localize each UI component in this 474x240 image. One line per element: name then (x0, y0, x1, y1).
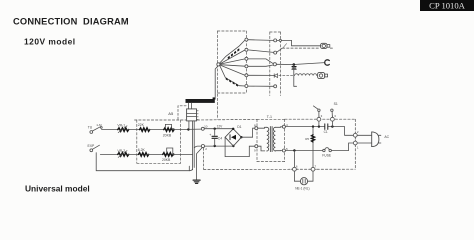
junction dot R5 top (312, 125, 314, 127)
T-1 terminal 8 (255, 127, 258, 130)
junction dot C4 top (214, 128, 216, 130)
terminal 2 (201, 145, 204, 148)
potentiometer 20KB (lower) (163, 153, 173, 156)
svg-text:C1: C1 (324, 130, 328, 134)
merged wire rows3-4 to spade lug (276, 63, 324, 65)
junction dot switch stub left (318, 125, 320, 127)
feed-through terminal 6 (291, 167, 298, 171)
selector terminal 4 (245, 65, 248, 68)
junction dot switch stub right (331, 125, 333, 127)
svg-text:CONNECTION DIAGRAM: CONNECTION DIAGRAM (13, 17, 129, 27)
capacitor C1 (324, 124, 326, 129)
selector terminal 5 (245, 74, 248, 77)
selector terminal 1 (245, 38, 248, 41)
diode arrow inside bridge (231, 135, 236, 140)
core (269, 127, 271, 152)
bridge rectifier D1 (225, 129, 241, 146)
junction dot bridge top (232, 128, 234, 130)
svg-text:C4: C4 (218, 137, 222, 141)
branch to neon terminal 6 (293, 151, 295, 168)
wire row B (EXP channel) (100, 153, 117, 155)
shielded pair down (192, 121, 194, 170)
input jack EXP (90, 145, 100, 152)
potentiometer 20KB (upper) (164, 128, 174, 131)
wire row1 to connector A (277, 40, 321, 45)
wire bridge left to T-1 terminal 9 (225, 137, 255, 156)
T-1 terminal 9 (255, 145, 258, 148)
svg-text:CP 1010A: CP 1010A (429, 1, 466, 11)
ground drop from terminal 2 (197, 147, 203, 180)
bead chain on row1 wire (228, 48, 240, 59)
dashed drop from terminal 2 (203, 148, 205, 169)
chassis dashed right side (354, 119, 356, 169)
splice bead marking (292, 67, 296, 70)
svg-text:1-M: 1-M (96, 123, 102, 127)
wire terminal 2 to rectifier (205, 145, 234, 147)
AC hot rail (285, 126, 324, 128)
bead chain on row6 wire (226, 78, 238, 87)
wire 0V rail to terminal 2 (194, 146, 201, 148)
drop wire from junction to row6 (294, 65, 297, 87)
wire row5 between columns (248, 74, 274, 76)
stub to feed-through 3 (318, 121, 320, 126)
primary winding (258, 127, 265, 130)
junction dot (172, 128, 174, 130)
selector common node (217, 63, 220, 66)
junction dot bridge bottom (232, 145, 234, 147)
wire from selector common down to tag strip bar (215, 66, 218, 99)
plug B (318, 72, 328, 78)
T-1 terminal 5 (282, 149, 285, 152)
fan wire to terminal row3 (220, 59, 245, 64)
wire row6 between columns (248, 85, 274, 87)
svg-text:12V: 12V (217, 125, 224, 129)
wire (127, 129, 139, 131)
svg-text:20KB: 20KB (163, 134, 172, 138)
stub to feed-through 3' (331, 121, 333, 126)
connector A (321, 43, 330, 48)
strip terminal row1 (274, 39, 277, 42)
fan wire to terminal row1 (220, 40, 245, 63)
svg-text:A5: A5 (168, 111, 174, 116)
crossing tick (283, 44, 286, 48)
AC neutral rail (285, 150, 322, 152)
lead row2 dashed to connector A (277, 48, 283, 52)
selector terminal 2 (245, 48, 248, 51)
svg-text:120V model: 120V model (24, 37, 76, 47)
wires to AC plug (357, 134, 372, 136)
svg-text:Universal model: Universal model (25, 184, 90, 193)
svg-text:R5: R5 (305, 137, 309, 141)
fuse (323, 148, 332, 152)
spade lug C (325, 60, 330, 65)
feed-through terminal 1' (353, 140, 357, 147)
coiled cord to plug B (295, 74, 317, 76)
junction dot bridge right (240, 136, 242, 138)
wire row4 merging (248, 65, 273, 66)
chassis dashed bottom (204, 168, 356, 170)
wire bridge right to T-1 terminal 8 (241, 128, 254, 137)
T-1 terminal 4 (282, 125, 285, 128)
fan wire to terminal row5 (220, 65, 245, 75)
svg-text:D1: D1 (237, 125, 241, 129)
svg-text:S1: S1 (334, 102, 338, 106)
bleeder resistor R5 (312, 127, 314, 135)
wire row1 between columns (248, 39, 274, 42)
inline splice on row1 wire (279, 39, 281, 41)
wire row2 between columns (248, 50, 274, 53)
svg-text:FUSE: FUSE (322, 153, 332, 157)
svg-text:NE-1 (NL): NE-1 (NL) (295, 187, 309, 191)
strip terminal row3-4 junction (273, 63, 276, 66)
junction dot at amp lead (187, 128, 189, 130)
junction dot (172, 153, 174, 155)
terminal strip dashed box (right) (270, 32, 281, 96)
ground (193, 180, 200, 183)
wire row A (12V rail) (102, 129, 118, 131)
ground return wire (left) (96, 153, 189, 171)
wire (148, 129, 164, 131)
svg-text:20KB: 20KB (162, 158, 171, 162)
resistor 6.2K (139, 153, 149, 156)
svg-text:22K: 22K (138, 123, 145, 127)
AC plug (372, 132, 381, 147)
chassis boundary dashed line (135, 119, 186, 121)
inline connector row5 (274, 74, 277, 78)
svg-text:T-1: T-1 (267, 115, 272, 119)
wire (127, 153, 138, 155)
svg-text:6.2K: 6.2K (138, 148, 146, 152)
fan wire to terminal row2 (220, 50, 245, 64)
voltage selector module dashed box (left) (218, 31, 247, 119)
strip terminal row6 (274, 85, 277, 88)
wire fuse to terminal 1 (331, 143, 353, 151)
junction dot C4 bottom (214, 145, 216, 147)
junction on merged wire (293, 63, 296, 66)
wire to rectifier (204, 128, 233, 130)
variable resistor VR-2 (118, 153, 129, 156)
svg-text:VR-1: VR-1 (117, 124, 125, 128)
wire (147, 153, 163, 155)
svg-text:10: 10 (204, 125, 208, 129)
terminal 10 (201, 127, 204, 130)
svg-text:TU: TU (88, 125, 93, 129)
capacitor C4 (212, 129, 217, 146)
feed-through terminal 3 (316, 116, 321, 121)
wire to shielded pair (172, 153, 192, 155)
strip terminal row2 (274, 51, 277, 54)
secondary winding (273, 127, 275, 151)
power switch S1 (313, 106, 333, 117)
svg-text:EXP: EXP (88, 144, 96, 148)
svg-text:+: + (209, 133, 211, 137)
wire row3 merging (248, 59, 273, 64)
model number plate CP 1010A (420, 0, 474, 11)
variable resistor VR-1 (118, 128, 129, 131)
amp leads down (188, 121, 190, 130)
svg-text:VR-2: VR-2 (117, 149, 125, 153)
transformer T-1 dashed box (257, 119, 285, 161)
tag strip bar (black) (186, 97, 216, 103)
wire to amp (172, 128, 201, 131)
feed-through terminal 2' (353, 132, 357, 139)
input jack TU (90, 127, 102, 134)
attenuator dashed box (137, 120, 181, 163)
selector terminal 6 (245, 85, 248, 88)
junction dot neon branch (293, 149, 295, 151)
neon pilot lamp NE-1 (294, 171, 300, 181)
amplifier unit A5 (187, 103, 199, 121)
fan wire to terminal row4 (220, 65, 245, 67)
feed-through terminal 7 (310, 167, 317, 171)
lead row5 dashed (279, 74, 293, 76)
fan wire to terminal row6 (220, 65, 245, 86)
A5 module dashed boundary (178, 106, 186, 120)
resistor 22K (140, 128, 150, 131)
svg-text:AC: AC (384, 135, 389, 139)
feed-through terminal 3' (331, 116, 336, 121)
selector terminal 3 (245, 57, 248, 60)
